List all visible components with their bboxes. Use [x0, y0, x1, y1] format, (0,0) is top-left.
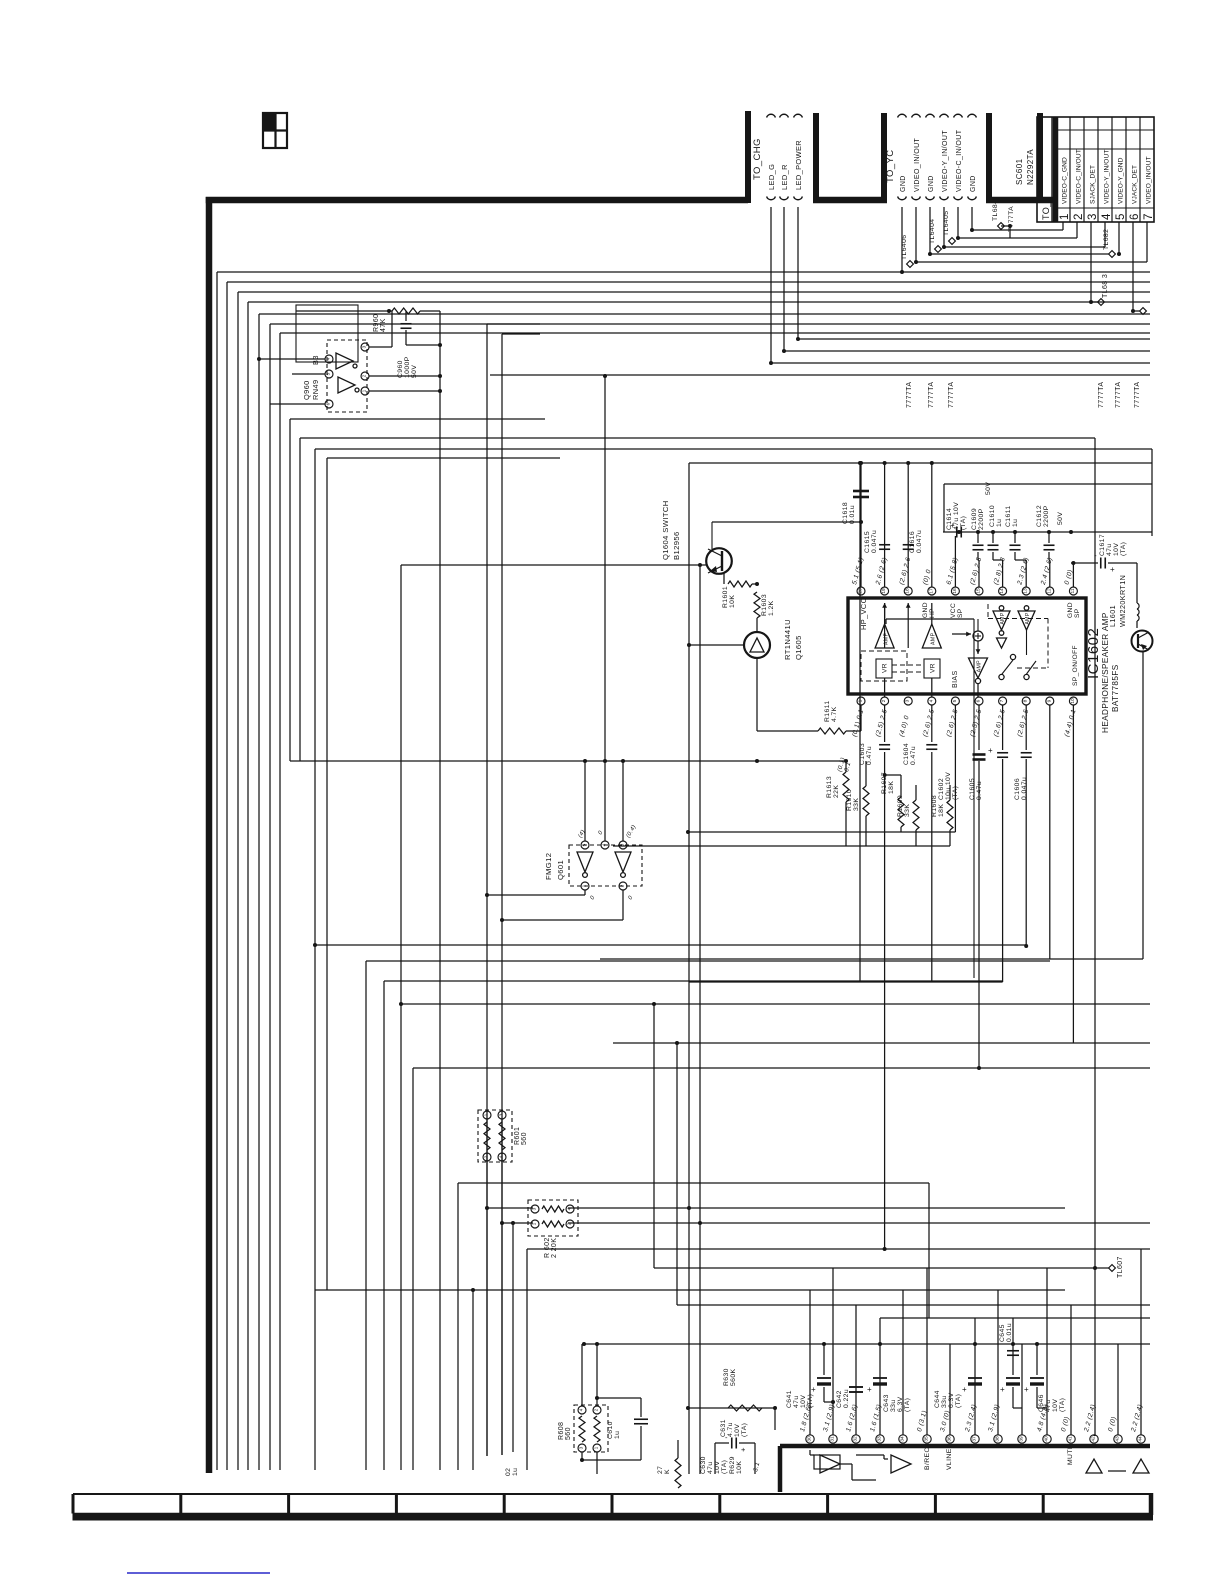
svg-text:2200P: 2200P	[978, 508, 985, 530]
svg-text:1: 1	[362, 389, 368, 392]
svg-text:SP_ON/OFF: SP_ON/OFF	[1072, 645, 1079, 686]
svg-text:1: 1	[594, 1446, 600, 1449]
svg-text:B/REC: B/REC	[924, 1447, 931, 1470]
svg-text:02: 02	[505, 1468, 512, 1476]
svg-text:7: 7	[999, 699, 1005, 702]
svg-text:5.1 (5.1): 5.1 (5.1)	[851, 557, 865, 586]
svg-text:2200P: 2200P	[1043, 505, 1050, 527]
svg-text:R601: R601	[514, 1127, 521, 1145]
svg-text:VJACK_DET: VJACK_DET	[1131, 165, 1138, 204]
svg-text:GND: GND	[928, 175, 935, 192]
svg-text:(TA): (TA)	[741, 1423, 748, 1437]
svg-text:(TA): (TA)	[904, 1398, 911, 1412]
svg-text:R 602: R 602	[544, 1237, 551, 1258]
svg-text:31: 31	[830, 1436, 836, 1442]
svg-text:LED_G: LED_G	[767, 164, 776, 190]
svg-text:C1611: C1611	[1005, 505, 1012, 527]
svg-text:C1612: C1612	[1036, 505, 1043, 527]
svg-text:3: 3	[362, 345, 368, 348]
svg-text:+: +	[988, 746, 993, 755]
svg-text:3: 3	[620, 843, 626, 846]
svg-text:4: 4	[567, 1207, 573, 1210]
svg-text:7777TA: 7777TA	[1098, 382, 1105, 408]
svg-text:2: 2	[620, 884, 626, 887]
svg-text:0: 0	[590, 895, 597, 901]
svg-text:10V: 10V	[1052, 1399, 1059, 1412]
svg-text:41: 41	[1068, 1436, 1074, 1442]
svg-text:10K: 10K	[736, 1461, 743, 1474]
svg-text:2: 2	[881, 699, 887, 702]
svg-text:SP: SP	[957, 608, 964, 618]
svg-text:33u: 33u	[890, 1399, 897, 1412]
svg-text:R629: R629	[729, 1456, 736, 1474]
svg-text:AMP: AMP	[931, 632, 937, 645]
svg-text:3: 3	[905, 699, 911, 702]
svg-text:T777TA: T777TA	[1008, 206, 1015, 232]
svg-text:IC1602: IC1602	[1085, 628, 1102, 679]
svg-text:(2.8) 2.3: (2.8) 2.3	[993, 557, 1007, 586]
svg-text:1.6 (1.5): 1.6 (1.5)	[869, 1404, 883, 1433]
svg-text:0.01u: 0.01u	[1006, 1323, 1013, 1342]
svg-text:C630: C630	[700, 1456, 707, 1474]
svg-text:10K: 10K	[729, 595, 736, 608]
svg-text:HEADPHONE/SPEAKER AMP: HEADPHONE/SPEAKER AMP	[1101, 612, 1110, 733]
svg-text:2: 2	[1073, 214, 1085, 220]
svg-text:10: 10	[1070, 698, 1076, 704]
svg-text:6.1 (5.8): 6.1 (5.8)	[946, 557, 960, 586]
svg-text:+: +	[867, 1385, 872, 1394]
svg-text:C1617: C1617	[1099, 534, 1106, 556]
svg-text:K: K	[664, 1469, 671, 1474]
svg-text:4.7K: 4.7K	[831, 706, 838, 722]
svg-text:1: 1	[532, 1222, 538, 1225]
svg-text:30: 30	[807, 1436, 813, 1442]
svg-text:0.22u: 0.22u	[843, 1389, 850, 1408]
svg-text:+: +	[1110, 565, 1115, 574]
svg-text:37: 37	[972, 1436, 978, 1442]
svg-text:(TA): (TA)	[1120, 542, 1127, 556]
svg-text:3.1 (2.9): 3.1 (2.9)	[987, 1404, 1001, 1433]
svg-text:1u: 1u	[996, 519, 1003, 527]
svg-text:C642: C642	[836, 1390, 843, 1408]
svg-text:5: 5	[326, 372, 332, 375]
svg-text:C1605: C1605	[969, 778, 976, 800]
svg-text:R1608: R1608	[931, 795, 938, 817]
svg-text:33K: 33K	[904, 804, 911, 817]
svg-text:+: +	[1000, 1385, 1005, 1394]
svg-text:6: 6	[326, 402, 332, 405]
svg-text:0 (0): 0 (0)	[1107, 1416, 1118, 1433]
svg-text:3: 3	[532, 1207, 538, 1210]
svg-text:1u: 1u	[1012, 519, 1019, 527]
svg-text:8: 8	[1023, 699, 1029, 702]
svg-text:TL6404: TL6404	[929, 219, 936, 244]
svg-text:19: 19	[881, 588, 887, 594]
svg-text:0.047u: 0.047u	[916, 530, 923, 553]
svg-text:33K: 33K	[853, 798, 860, 811]
svg-text:10V: 10V	[734, 1424, 741, 1437]
svg-text:15: 15	[976, 588, 982, 594]
svg-text:R960: R960	[373, 314, 380, 332]
svg-text:0 (0): 0 (0)	[1064, 569, 1075, 586]
svg-text:4: 4	[928, 699, 934, 702]
svg-text:VIDEO-Y_GND: VIDEO-Y_GND	[1117, 157, 1124, 204]
svg-text:4: 4	[326, 357, 332, 360]
svg-text:(2.6) 2.5: (2.6) 2.5	[1016, 709, 1030, 738]
svg-text:AMP: AMP	[977, 660, 983, 673]
svg-text:(0.1) 0.1: (0.1) 0.1	[851, 709, 865, 738]
svg-text:GND: GND	[970, 175, 977, 192]
svg-text:7777TA: 7777TA	[928, 382, 935, 408]
svg-text:40: 40	[1044, 1436, 1050, 1442]
svg-text:3.1 (2.9): 3.1 (2.9)	[822, 1404, 836, 1433]
svg-text:1000P: 1000P	[404, 356, 411, 378]
svg-text:0 (0): 0 (0)	[1060, 1416, 1071, 1433]
svg-text:BIAS: BIAS	[952, 670, 959, 688]
svg-text:TL6406: TL6406	[901, 235, 908, 260]
svg-text:C1610: C1610	[989, 505, 996, 527]
svg-text:18: 18	[905, 588, 911, 594]
svg-text:2.3 (2.4): 2.3 (2.4)	[964, 1404, 978, 1434]
svg-text:0.01u: 0.01u	[849, 505, 856, 524]
svg-text:B3: B3	[311, 355, 320, 365]
svg-text:R608: R608	[558, 1422, 565, 1440]
svg-text:39: 39	[1019, 1436, 1025, 1442]
svg-text:34: 34	[900, 1436, 906, 1442]
svg-text:TL68 3: TL68 3	[1102, 274, 1109, 298]
svg-text:11: 11	[1070, 588, 1076, 593]
svg-text:0.047u: 0.047u	[1021, 777, 1028, 800]
svg-text:C610: C610	[607, 1421, 614, 1439]
svg-text:0.47u: 0.47u	[910, 746, 917, 765]
svg-text:0.47u: 0.47u	[976, 781, 983, 800]
svg-text:C1606: C1606	[1014, 778, 1021, 800]
svg-text:C644: C644	[934, 1390, 941, 1408]
svg-text:(0.4): (0.4)	[626, 824, 638, 839]
svg-text:+: +	[741, 1445, 746, 1454]
svg-text:(4.0) 0: (4.0) 0	[898, 715, 910, 738]
svg-text:GND: GND	[922, 602, 929, 618]
svg-text:2 20K: 2 20K	[551, 1238, 558, 1258]
svg-text:1.2K: 1.2K	[768, 600, 775, 616]
svg-text:47u: 47u	[793, 1395, 800, 1408]
svg-text:VIDEO-Y_IN/OUT: VIDEO-Y_IN/OUT	[942, 130, 949, 192]
svg-text:VIDEO_IN/OUT: VIDEO_IN/OUT	[914, 137, 921, 192]
svg-text:C643: C643	[883, 1394, 890, 1412]
svg-text:42: 42	[1091, 1436, 1097, 1442]
svg-text:Q960: Q960	[302, 380, 311, 400]
svg-text:6.3V: 6.3V	[948, 1392, 955, 1408]
svg-text:2: 2	[567, 1222, 573, 1225]
svg-text:+: +	[1024, 1385, 1029, 1394]
svg-text:VIDEO_IN/OUT: VIDEO_IN/OUT	[1145, 156, 1152, 204]
svg-text:(TA): (TA)	[955, 1394, 962, 1408]
svg-text:C960: C960	[397, 360, 404, 378]
svg-text:BAT7785FS: BAT7785FS	[1111, 664, 1120, 712]
svg-text:1: 1	[1059, 214, 1071, 220]
svg-text:27: 27	[657, 1466, 664, 1474]
svg-text:VIDEO-C_IN/OUT: VIDEO-C_IN/OUT	[1075, 149, 1082, 204]
svg-text:C1602: C1602	[938, 778, 945, 800]
svg-text:9: 9	[1046, 699, 1052, 702]
svg-text:C1614: C1614	[946, 508, 953, 530]
svg-text:SC601: SC601	[1015, 158, 1024, 185]
svg-text:(2.5) 2.5: (2.5) 2.5	[969, 709, 983, 738]
svg-text:4: 4	[1101, 213, 1113, 220]
svg-text:7777TA: 7777TA	[948, 382, 955, 408]
svg-text:17: 17	[928, 588, 934, 594]
svg-text:R1609: R1609	[897, 795, 904, 817]
svg-text:43: 43	[1115, 1436, 1121, 1442]
svg-text:(0) 0: (0) 0	[922, 569, 933, 586]
svg-text:+: +	[811, 1385, 816, 1394]
svg-text:13: 13	[1023, 588, 1029, 594]
svg-text:LED_POWER: LED_POWER	[794, 140, 803, 190]
svg-text:(TA): (TA)	[960, 516, 967, 530]
svg-text:R1603: R1603	[761, 594, 768, 616]
svg-text:L1601: L1601	[1108, 605, 1117, 627]
svg-text:MUTE: MUTE	[1067, 1444, 1074, 1465]
svg-text:560K: 560K	[730, 1368, 737, 1386]
svg-text:3: 3	[499, 1113, 505, 1116]
svg-text:RN49: RN49	[311, 380, 320, 401]
svg-text:5: 5	[952, 699, 958, 702]
svg-text:C1618: C1618	[842, 502, 849, 524]
svg-text:FMG12: FMG12	[544, 853, 553, 880]
svg-text:14: 14	[999, 588, 1005, 594]
svg-text:0.47u: 0.47u	[866, 746, 873, 765]
svg-text:C1609: C1609	[971, 508, 978, 530]
svg-text:7777TA: 7777TA	[906, 382, 913, 408]
svg-text:1: 1	[582, 884, 588, 887]
svg-text:38: 38	[995, 1436, 1001, 1442]
svg-text:33: 33	[877, 1436, 883, 1442]
svg-text:5: 5	[582, 843, 588, 846]
svg-text:2: 2	[362, 374, 368, 377]
svg-text:18K: 18K	[888, 781, 895, 794]
svg-text:SP: SP	[1074, 608, 1081, 618]
svg-text:RT1N441U: RT1N441U	[783, 619, 792, 660]
svg-text:R1611: R1611	[824, 700, 831, 722]
svg-text:1: 1	[484, 1113, 490, 1116]
svg-text:(2.6) 2.5: (2.6) 2.5	[922, 709, 936, 738]
svg-text:C645: C645	[999, 1324, 1006, 1342]
svg-text:Q1605: Q1605	[794, 635, 803, 660]
svg-text:SJACK_DET: SJACK_DET	[1089, 165, 1096, 204]
svg-text:R1610: R1610	[846, 789, 853, 811]
svg-text:7777TA: 7777TA	[1115, 382, 1122, 408]
svg-text:C1616: C1616	[909, 531, 916, 553]
svg-text:36: 36	[947, 1436, 953, 1442]
svg-text:VCC: VCC	[950, 603, 957, 618]
svg-text:Q1604 SWITCH: Q1604 SWITCH	[661, 500, 670, 560]
svg-text:TO_CHG: TO_CHG	[752, 138, 763, 180]
svg-text:16: 16	[952, 588, 958, 594]
svg-text:6: 6	[1129, 214, 1141, 220]
svg-text:+: +	[962, 1385, 967, 1394]
svg-text:(2.6) 2.5: (2.6) 2.5	[993, 709, 1007, 738]
svg-text:VIDEO-C_GND: VIDEO-C_GND	[1061, 157, 1068, 204]
svg-text:VIDEO-C_IN/OUT: VIDEO-C_IN/OUT	[956, 129, 963, 192]
svg-text:(4.4) 0.1: (4.4) 0.1	[1064, 709, 1078, 738]
svg-text:(2.6) 2.5: (2.6) 2.5	[946, 709, 960, 738]
svg-text:44: 44	[1138, 1436, 1144, 1442]
svg-text:TL684: TL684	[992, 200, 999, 221]
svg-text:LED_R: LED_R	[780, 164, 789, 190]
svg-text:560: 560	[521, 1132, 528, 1145]
svg-text:B12956: B12956	[672, 531, 681, 560]
svg-text:5: 5	[1115, 214, 1127, 220]
svg-text:GND: GND	[900, 175, 907, 192]
svg-text:12: 12	[1046, 588, 1052, 594]
svg-text:7777TA: 7777TA	[1134, 382, 1141, 408]
svg-text:1u: 1u	[512, 1468, 519, 1476]
svg-text:32: 32	[853, 1436, 859, 1442]
svg-text:3: 3	[1087, 214, 1099, 220]
svg-text:2.4 (2.6): 2.4 (2.6)	[1040, 557, 1054, 587]
svg-text:(2.6) 2.6: (2.6) 2.6	[898, 557, 912, 586]
svg-text:33u: 33u	[941, 1395, 948, 1408]
svg-text:(2.5) 2.5: (2.5) 2.5	[875, 709, 889, 738]
svg-text:3: 3	[579, 1446, 585, 1449]
svg-text:7: 7	[1143, 214, 1155, 220]
svg-text:18K: 18K	[938, 804, 945, 817]
svg-text:50V: 50V	[985, 482, 992, 495]
svg-text:47u: 47u	[707, 1461, 714, 1474]
svg-text:WM220KRT1N: WM220KRT1N	[1118, 575, 1127, 627]
svg-text:VR: VR	[930, 663, 937, 673]
svg-text:(2.6) 2.5: (2.6) 2.5	[969, 557, 983, 586]
svg-text:0.047u: 0.047u	[871, 530, 878, 553]
svg-text:TL682: TL682	[1103, 229, 1110, 250]
svg-text:50V: 50V	[1057, 512, 1064, 525]
svg-text:TO_YC: TO_YC	[885, 149, 896, 183]
svg-text:2.6 (2.6): 2.6 (2.6)	[875, 557, 889, 587]
svg-text:VIDEO-Y_IN/OUT: VIDEO-Y_IN/OUT	[1103, 149, 1110, 204]
svg-text:TL607: TL607	[1117, 1256, 1124, 1278]
svg-text:4: 4	[602, 843, 608, 846]
svg-text:(TA): (TA)	[1059, 1398, 1066, 1412]
svg-text:HP: HP	[929, 608, 936, 618]
svg-text:VLINE: VLINE	[946, 1448, 953, 1470]
svg-text:22K: 22K	[833, 785, 840, 798]
svg-text:560: 560	[565, 1427, 572, 1440]
svg-text:(TA): (TA)	[721, 1460, 728, 1474]
svg-text:47u: 47u	[1106, 543, 1113, 556]
svg-text:47K: 47K	[380, 318, 387, 332]
svg-text:0: 0	[628, 895, 635, 901]
svg-text:Q601: Q601	[556, 860, 565, 880]
svg-text:C1604: C1604	[903, 743, 910, 765]
svg-text:R630: R630	[723, 1368, 730, 1386]
svg-text:0: 0	[598, 830, 605, 836]
svg-text:R1613: R1613	[826, 776, 833, 798]
svg-text:C1615: C1615	[864, 531, 871, 553]
svg-text:10u 10V: 10u 10V	[945, 772, 952, 800]
svg-text:VR: VR	[882, 663, 889, 673]
svg-text:AMP: AMP	[883, 632, 889, 645]
svg-text:10V: 10V	[1113, 543, 1120, 556]
svg-text:2: 2	[594, 1408, 600, 1411]
svg-text:TL6405: TL6405	[943, 211, 950, 236]
svg-text:N2292TA: N2292TA	[1026, 149, 1035, 185]
svg-text:4.7u: 4.7u	[727, 1422, 734, 1437]
svg-text:1u: 1u	[614, 1431, 621, 1439]
svg-text:2.2 (2.4): 2.2 (2.4)	[1130, 1404, 1144, 1434]
svg-text:TO_: TO_	[1041, 201, 1051, 220]
svg-text:35: 35	[924, 1436, 930, 1442]
svg-text:3.1: 3.1	[752, 1461, 761, 1472]
svg-text:C641: C641	[786, 1390, 793, 1408]
svg-text:2.3 (2.6): 2.3 (2.6)	[1016, 557, 1030, 587]
svg-text:47u 10V: 47u 10V	[953, 502, 960, 530]
svg-text:R1601: R1601	[722, 586, 729, 608]
svg-text:6: 6	[976, 699, 982, 702]
svg-text:GND: GND	[1067, 602, 1074, 618]
svg-text:4: 4	[579, 1408, 585, 1411]
svg-text:0.1: 0.1	[843, 761, 852, 772]
